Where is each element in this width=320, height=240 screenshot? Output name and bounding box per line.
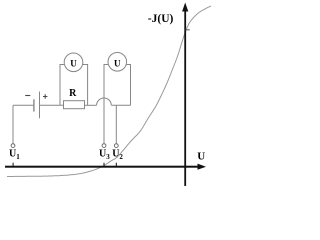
wire V1 left lead: [60, 65, 65, 106]
svg-text:U: U: [70, 59, 77, 69]
tick on J axis at curve crossing: [185, 29, 190, 31]
wire: [40, 104, 64, 106]
svg-text:U: U: [197, 151, 205, 163]
-J(U) axis arrowhead: [182, 3, 188, 12]
terminal U1: [11, 144, 15, 148]
battery B1 negative plate: [33, 99, 35, 111]
wire: [111, 104, 130, 106]
U axis (horizontal): [5, 166, 199, 168]
axis tick at U2: [116, 163, 117, 166]
svg-text:R: R: [69, 88, 77, 99]
axis tick at U3: [104, 163, 105, 166]
wire V2 right lead: [126, 65, 130, 106]
wire V2 left lead down to terminal U3: [104, 65, 108, 144]
wire: [12, 105, 14, 143]
wire V1 right lead: [82, 65, 87, 106]
battery plus sign: [43, 94, 47, 98]
wire hop over U3 lead: [97, 98, 112, 105]
battery B1 positive plate: [39, 92, 41, 119]
terminal U2: [114, 144, 118, 148]
voltmeter U (V2) body: [108, 53, 127, 72]
wire: [85, 104, 97, 106]
U axis arrowhead: [198, 164, 207, 170]
terminal U3: [102, 144, 106, 148]
graph curve -J(U): [7, 6, 211, 177]
-J(U) axis (vertical): [184, 9, 186, 186]
resistor R: [64, 101, 85, 109]
battery minus sign: [25, 95, 30, 97]
voltmeter U (V1) body: [64, 53, 83, 72]
wire: [13, 104, 34, 106]
svg-text:-J(U): -J(U): [148, 13, 174, 25]
wire U2 tap: [115, 105, 117, 143]
axis tick at U1: [13, 163, 14, 166]
svg-text:U: U: [114, 58, 121, 68]
